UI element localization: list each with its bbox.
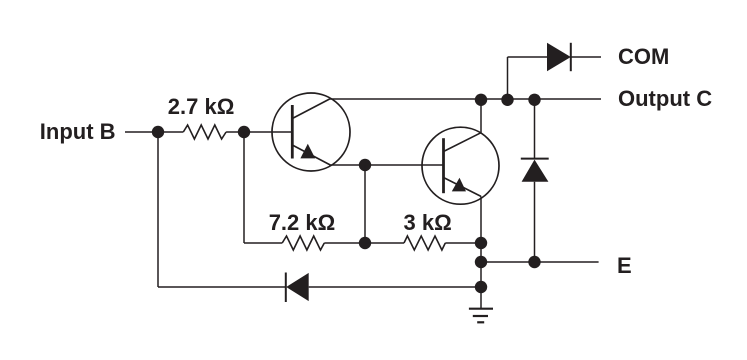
wire: Q1 emitter to Q2 base [330, 164, 443, 166]
wire: Q2 emitter down to ground node [480, 196, 482, 287]
svg-text:Output C: Output C [618, 86, 712, 111]
diode D3 base-emitter return [286, 273, 309, 303]
wire: Q2 collector up to output line [480, 99, 482, 133]
resistor R3 3 kOhm zigzag [404, 236, 445, 250]
wire: Q1 emitter node down to resistor junction [364, 165, 366, 243]
junction dot: Q1 emitter node [359, 159, 371, 171]
junction dot: E/clamp diode [528, 256, 540, 268]
wire: COM branch horizontal [508, 56, 602, 58]
svg-text:Input B: Input B [40, 119, 116, 144]
diode D2 collector-emitter clamp [521, 159, 549, 182]
transistor Q2 [422, 127, 499, 204]
ground [469, 287, 493, 322]
svg-text:3 kΩ: 3 kΩ [404, 210, 452, 235]
junction dot: output/clamp diode branch [528, 94, 540, 106]
junction dot: output/Q2 collector [475, 94, 487, 106]
wire: Input B lead to Q1 base [125, 131, 292, 133]
wire: bottom return line [158, 286, 481, 288]
wire: left vertical from input node down [157, 132, 159, 287]
junction dot: emitter/E line node [475, 256, 487, 268]
wire: output C horizontal line [330, 98, 601, 100]
wire: E line [481, 261, 599, 263]
svg-text:7.2 kΩ: 7.2 kΩ [269, 210, 336, 235]
junction dot: emitter/bottom line node [475, 281, 487, 293]
svg-text:COM: COM [618, 44, 669, 69]
wire: COM branch vertical [507, 57, 509, 99]
diode D1 to COM [547, 43, 571, 71]
wire: 7.2k leads [244, 242, 365, 244]
wire: vertical from Q1 base node to 7.2k [243, 132, 245, 243]
svg-text:E: E [617, 253, 632, 278]
junction dot: input node left [152, 126, 164, 138]
resistor R2 7.2 kOhm zigzag [282, 236, 324, 250]
wire: clamp diode vertical [534, 99, 536, 262]
svg-text:2.7 kΩ: 2.7 kΩ [168, 94, 235, 119]
wire: 3k leads [365, 242, 481, 244]
junction dot: R2/R3 node [359, 237, 371, 249]
junction dot: Q1 base node [238, 126, 250, 138]
junction dot: output/COM branch [501, 94, 513, 106]
transistor Q1 [272, 93, 350, 171]
junction dot: emitter/3k node [475, 237, 487, 249]
resistor R1 2.7 kOhm zigzag [183, 125, 226, 139]
